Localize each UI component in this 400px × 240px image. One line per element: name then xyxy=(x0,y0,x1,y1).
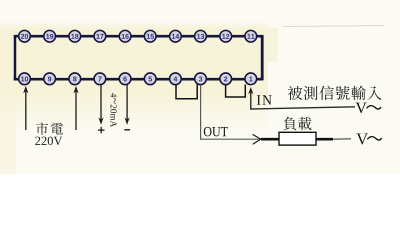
pin 19 xyxy=(44,30,56,42)
pin 20 xyxy=(19,30,31,42)
pin 1 xyxy=(245,73,257,85)
terminal V~ output xyxy=(356,133,381,144)
pin 4 xyxy=(170,73,182,85)
jumper pins 4-3 xyxy=(176,85,197,99)
pin 16 xyxy=(119,30,131,42)
wire to load xyxy=(261,138,280,141)
faint scan streak top right xyxy=(283,26,384,27)
label IN xyxy=(257,95,272,104)
pin 12 xyxy=(220,30,232,42)
terminal V~ input xyxy=(356,103,381,114)
label 市電 xyxy=(36,122,63,134)
label − xyxy=(124,129,130,131)
pin 7 xyxy=(94,73,106,85)
pin 6 xyxy=(119,73,131,85)
pin 11 xyxy=(245,30,257,42)
label + xyxy=(98,127,105,133)
label 被測信號輸入 xyxy=(288,86,382,100)
current output arrow from pin 6 (−) xyxy=(125,85,130,125)
mains arrow to pin 8 xyxy=(73,86,78,130)
wire load to V~ output xyxy=(316,138,351,141)
pin 14 xyxy=(170,30,182,42)
wire OUT from pin 3 xyxy=(201,85,260,139)
connector frame xyxy=(14,35,262,80)
arrowhead on OUT wire xyxy=(253,134,261,144)
load resistor xyxy=(279,132,316,145)
IN arrow to pin 1 xyxy=(248,87,253,109)
pin 10 xyxy=(19,73,31,85)
pin 5 xyxy=(144,73,156,85)
label 負載 xyxy=(283,117,311,130)
mains arrow to pin 10 xyxy=(23,86,28,130)
label 220V xyxy=(35,137,62,146)
pin 13 xyxy=(195,30,207,42)
pin 9 xyxy=(44,73,56,85)
pin 3 xyxy=(195,73,207,85)
label OUT xyxy=(204,127,228,136)
label 4~20mA (vertical) xyxy=(111,93,117,127)
pin 18 xyxy=(69,30,81,42)
current output arrow from pin 7 (+) xyxy=(98,85,103,125)
jumper pins 2-1 xyxy=(226,85,246,98)
pin 17 xyxy=(94,30,106,42)
pin 15 xyxy=(144,30,156,42)
pin 8 xyxy=(69,73,81,85)
wire IN to V~ input xyxy=(250,107,355,109)
pin 2 xyxy=(220,73,232,85)
